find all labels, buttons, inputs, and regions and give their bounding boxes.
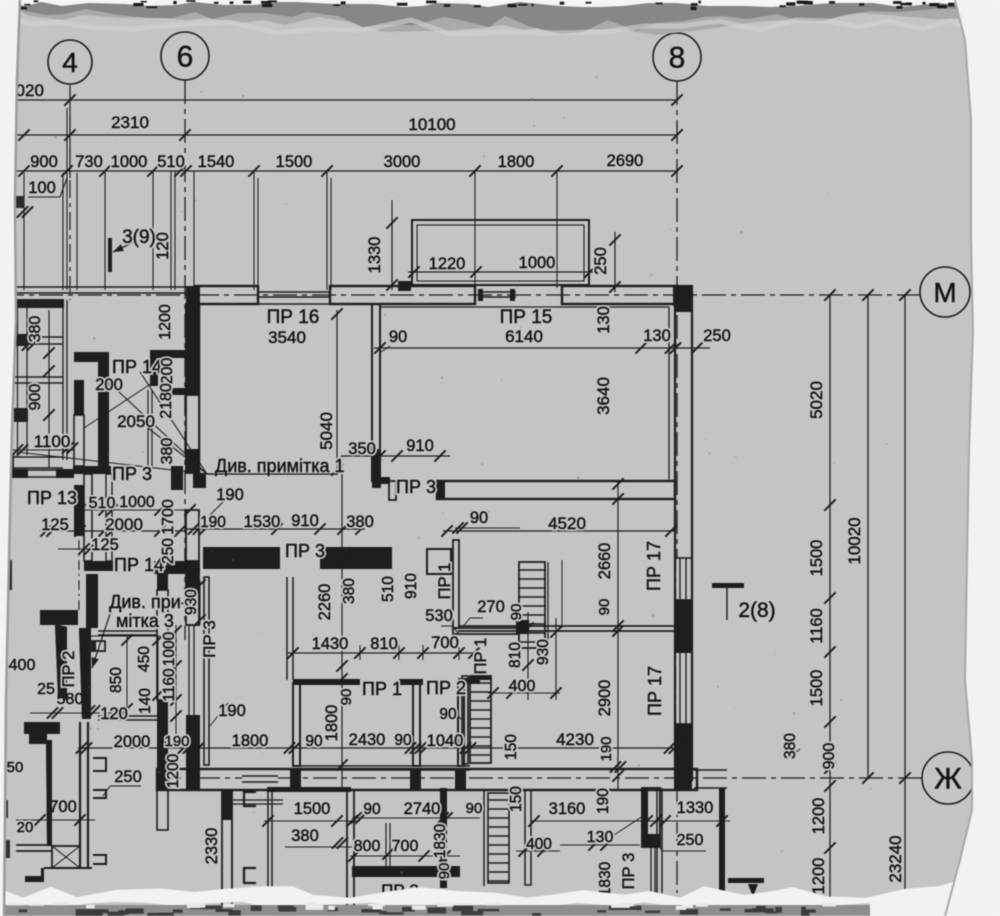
- svg-text:Ж: Ж: [934, 763, 962, 796]
- svg-text:130: 130: [643, 327, 671, 345]
- svg-text:850: 850: [108, 667, 125, 693]
- svg-text:90: 90: [338, 689, 355, 706]
- svg-text:190: 190: [218, 702, 246, 720]
- svg-text:ПР 13: ПР 13: [27, 488, 77, 508]
- svg-text:2690: 2690: [607, 152, 644, 170]
- svg-text:2260: 2260: [316, 584, 334, 621]
- svg-text:810: 810: [507, 642, 524, 668]
- svg-text:510: 510: [380, 576, 397, 602]
- svg-text:90: 90: [436, 863, 453, 880]
- svg-text:1500: 1500: [808, 540, 826, 577]
- svg-text:400: 400: [509, 678, 536, 695]
- svg-text:250: 250: [703, 327, 731, 345]
- svg-text:1160: 1160: [808, 608, 826, 643]
- svg-text:мітка 3: мітка 3: [116, 611, 174, 631]
- svg-text:2(8): 2(8): [738, 599, 775, 622]
- svg-text:6: 6: [177, 41, 194, 74]
- svg-text:150: 150: [508, 786, 525, 812]
- svg-text:250: 250: [592, 247, 610, 275]
- svg-text:800: 800: [354, 838, 381, 855]
- svg-text:380: 380: [27, 316, 44, 343]
- svg-text:1700: 1700: [160, 499, 177, 535]
- svg-text:90: 90: [508, 604, 525, 621]
- svg-text:4520: 4520: [548, 514, 586, 533]
- svg-text:1000: 1000: [119, 494, 155, 511]
- svg-text:190: 190: [164, 733, 189, 750]
- svg-text:900: 900: [27, 384, 44, 411]
- svg-text:1330: 1330: [677, 799, 714, 817]
- svg-text:ПР 1: ПР 1: [436, 563, 454, 600]
- svg-text:ПР 17: ПР 17: [645, 666, 665, 716]
- svg-text:1100: 1100: [34, 432, 71, 451]
- svg-text:90: 90: [389, 328, 407, 346]
- svg-text:930: 930: [535, 639, 552, 665]
- svg-text:1200: 1200: [157, 304, 174, 340]
- svg-text:1500: 1500: [294, 800, 331, 818]
- svg-text:23240: 23240: [886, 835, 905, 882]
- svg-text:90: 90: [394, 732, 412, 749]
- svg-text:900: 900: [821, 743, 838, 770]
- svg-text:2660: 2660: [596, 543, 614, 580]
- svg-text:1330: 1330: [366, 237, 384, 274]
- svg-text:90: 90: [305, 733, 323, 750]
- svg-text:1040: 1040: [427, 732, 464, 750]
- svg-text:730: 730: [75, 153, 103, 171]
- svg-text:1800: 1800: [323, 705, 341, 742]
- svg-text:120: 120: [154, 232, 172, 260]
- svg-text:125: 125: [41, 516, 69, 534]
- svg-text:4230: 4230: [556, 730, 594, 749]
- svg-text:930: 930: [183, 589, 200, 615]
- svg-text:3640: 3640: [594, 377, 613, 415]
- svg-text:700: 700: [392, 838, 419, 855]
- svg-text:ПР 15: ПР 15: [500, 307, 553, 328]
- svg-text:90: 90: [596, 599, 613, 616]
- svg-text:2310: 2310: [111, 113, 149, 132]
- svg-text:200: 200: [95, 376, 123, 394]
- svg-text:ПР 14: ПР 14: [114, 555, 164, 575]
- svg-text:Див. примітка 1: Див. примітка 1: [215, 456, 345, 476]
- svg-text:2000: 2000: [105, 515, 143, 534]
- svg-text:130: 130: [587, 829, 614, 846]
- svg-text:380: 380: [159, 438, 176, 465]
- svg-text:2180: 2180: [158, 383, 175, 419]
- svg-text:450: 450: [136, 646, 153, 672]
- svg-text:2330: 2330: [203, 828, 221, 865]
- svg-text:1220: 1220: [429, 255, 466, 273]
- svg-text:ПР 3: ПР 3: [112, 464, 152, 484]
- svg-text:900: 900: [30, 153, 58, 171]
- svg-text:510: 510: [89, 495, 116, 512]
- svg-text:1500: 1500: [276, 153, 313, 171]
- svg-text:1430: 1430: [312, 635, 349, 653]
- svg-text:2740: 2740: [404, 800, 441, 818]
- svg-text:100: 100: [28, 179, 56, 197]
- svg-text:190: 190: [216, 486, 244, 504]
- svg-text:190: 190: [598, 736, 615, 761]
- svg-text:200: 200: [159, 358, 176, 385]
- svg-text:380: 380: [341, 578, 358, 604]
- svg-text:5040: 5040: [317, 412, 336, 450]
- svg-text:510: 510: [157, 153, 185, 171]
- svg-text:ПР 2: ПР 2: [426, 678, 466, 698]
- svg-text:ПР 3: ПР 3: [285, 541, 325, 561]
- svg-text:ПР 1: ПР 1: [362, 679, 402, 699]
- svg-text:1530: 1530: [244, 513, 281, 531]
- svg-text:1200: 1200: [810, 858, 828, 895]
- svg-text:1000: 1000: [519, 254, 556, 272]
- svg-text:810: 810: [370, 635, 398, 653]
- svg-text:ПР 16: ПР 16: [267, 307, 320, 328]
- svg-text:350: 350: [348, 440, 376, 458]
- svg-text:ПР 2: ПР 2: [60, 651, 78, 688]
- svg-text:250: 250: [160, 538, 177, 564]
- svg-text:10100: 10100: [408, 115, 455, 134]
- svg-text:Див. при-: Див. при-: [109, 592, 187, 612]
- svg-text:1000: 1000: [111, 153, 148, 171]
- svg-text:90: 90: [439, 706, 457, 723]
- svg-text:910: 910: [291, 512, 319, 530]
- svg-text:М: М: [933, 277, 956, 308]
- svg-text:150: 150: [503, 734, 520, 760]
- svg-text:6140: 6140: [505, 327, 543, 346]
- svg-text:1200: 1200: [810, 798, 828, 835]
- svg-text:20: 20: [17, 819, 34, 836]
- svg-text:380: 380: [346, 513, 374, 531]
- svg-text:90: 90: [363, 801, 381, 818]
- svg-text:ПР 17: ПР 17: [644, 541, 664, 591]
- svg-text:120: 120: [100, 705, 128, 723]
- svg-text:380: 380: [291, 827, 319, 845]
- svg-text:3160: 3160: [549, 800, 586, 818]
- svg-text:1160: 1160: [161, 668, 178, 702]
- svg-text:1830: 1830: [597, 861, 614, 896]
- svg-text:700: 700: [49, 798, 77, 816]
- svg-text:ПР 3: ПР 3: [620, 853, 638, 890]
- svg-text:400: 400: [526, 836, 552, 853]
- svg-text:1200: 1200: [165, 753, 182, 788]
- svg-text:1800: 1800: [498, 153, 535, 171]
- svg-text:ПР 3: ПР 3: [396, 477, 436, 497]
- svg-text:1500: 1500: [808, 670, 826, 707]
- svg-text:3(9): 3(9): [122, 227, 156, 248]
- svg-text:380: 380: [782, 733, 799, 759]
- svg-text:270: 270: [477, 598, 505, 616]
- svg-text:250: 250: [677, 832, 704, 849]
- svg-text:190: 190: [595, 788, 612, 814]
- svg-text:910: 910: [406, 437, 434, 455]
- svg-text:400: 400: [9, 657, 36, 674]
- svg-text:ПР 1: ПР 1: [472, 638, 490, 675]
- svg-text:2900: 2900: [596, 680, 614, 717]
- svg-text:4: 4: [62, 47, 78, 78]
- svg-text:5020: 5020: [807, 381, 826, 419]
- svg-text:25: 25: [37, 681, 55, 698]
- svg-text:2050: 2050: [117, 412, 155, 431]
- svg-text:140: 140: [137, 688, 154, 714]
- svg-text:125: 125: [91, 536, 119, 554]
- svg-text:10020: 10020: [845, 517, 864, 564]
- svg-text:530: 530: [425, 607, 453, 625]
- svg-text:50: 50: [7, 759, 24, 776]
- svg-text:90: 90: [470, 509, 488, 527]
- svg-text:700: 700: [431, 634, 459, 652]
- svg-text:250: 250: [114, 768, 142, 786]
- svg-text:1830: 1830: [432, 823, 449, 858]
- svg-text:910: 910: [403, 573, 420, 599]
- svg-text:3540: 3540: [268, 328, 306, 347]
- svg-text:1800: 1800: [232, 732, 269, 750]
- svg-text:ПР 14: ПР 14: [112, 357, 162, 377]
- svg-text:2430: 2430: [349, 731, 386, 749]
- svg-text:ПР 3: ПР 3: [200, 620, 219, 658]
- svg-text:90: 90: [466, 800, 483, 817]
- svg-text:8: 8: [669, 42, 686, 75]
- svg-text:130: 130: [595, 306, 613, 334]
- svg-text:1000: 1000: [161, 631, 178, 666]
- svg-text:2000: 2000: [114, 733, 151, 751]
- svg-text:1540: 1540: [198, 153, 235, 171]
- svg-text:190: 190: [200, 514, 226, 531]
- svg-text:3000: 3000: [384, 153, 421, 171]
